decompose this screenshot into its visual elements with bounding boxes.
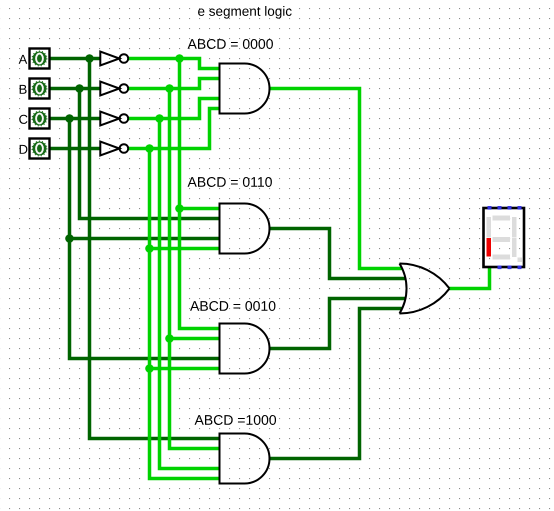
segment c (bottom-right) off bbox=[512, 238, 517, 257]
wire B pin to inverter bbox=[50, 87, 100, 91]
input pin C bbox=[30, 109, 50, 129]
wire D pin to inverter bbox=[50, 147, 100, 151]
wire inverted A tap to AND2 input 1 bbox=[180, 207, 220, 211]
AND gate U4 (ABCD=1000) bbox=[220, 434, 270, 484]
wire AND4 output to OR input 4 (dark) bbox=[270, 309, 403, 459]
junction inverted B vertical y338 bbox=[165, 334, 174, 343]
wire inverted A vertical to AND3 input 1 bbox=[180, 59, 220, 329]
junction inverted C row x159 bbox=[155, 114, 164, 123]
unconnected pin stubs (blue) bottom bbox=[498, 266, 502, 270]
display border bbox=[484, 208, 525, 267]
OR gate U5 bbox=[400, 264, 450, 314]
wire C branch down to AND3 input 3 bbox=[70, 119, 220, 359]
pin label B bbox=[20, 85, 27, 94]
junction A row x89 bbox=[85, 54, 94, 63]
wire inverted D vertical to AND4 input 4 bbox=[150, 149, 220, 479]
decimal point off bbox=[518, 258, 523, 263]
wire C pin to inverter bbox=[50, 117, 100, 121]
segment a (top) off bbox=[493, 216, 511, 221]
segment e (bottom-left) ON red bbox=[487, 238, 492, 257]
input pin D bbox=[30, 139, 50, 159]
label gate U1 "ABCD = 0000" bbox=[188, 39, 273, 49]
AND gate U2 (ABCD=0110) bbox=[220, 204, 270, 254]
wire AND2 output to OR input 2 (dark) bbox=[270, 229, 406, 279]
wire inverted D tap to AND3 input 4 bbox=[150, 367, 220, 371]
pin label D bbox=[20, 145, 28, 154]
wire inverted B vertical to AND4 input 2 bbox=[170, 89, 220, 449]
wire AND1 output to OR input 1 (bright) bbox=[270, 89, 403, 269]
junction inverted D vertical y248 bbox=[145, 244, 154, 253]
inverter (NOT gate) on C bbox=[100, 112, 128, 126]
inverter (NOT gate) on A bbox=[100, 52, 128, 66]
wire inverted B row to AND1 input 2 bbox=[128, 79, 220, 89]
AND gate U1 (ABCD=0000) bbox=[220, 64, 270, 114]
7-segment display U6 bbox=[484, 206, 525, 269]
label gate U3 "ABCD = 0010" bbox=[190, 301, 275, 311]
junction inverted A vertical y208 bbox=[175, 204, 184, 213]
input pin A bbox=[30, 49, 50, 69]
junction inverted D row x149 bbox=[145, 144, 154, 153]
wire OR output to display (bright) bbox=[450, 267, 490, 289]
segment d (bottom) off bbox=[493, 255, 511, 260]
inverter (NOT gate) on D bbox=[100, 142, 128, 156]
title: circuit name text bbox=[198, 6, 292, 19]
wire inverted C row to AND1 input 3 bbox=[128, 99, 220, 119]
pin label A bbox=[19, 55, 28, 64]
junction inverted A row x179 bbox=[175, 54, 184, 63]
AND gate U3 (ABCD=0010) bbox=[220, 324, 270, 374]
inverter (NOT gate) on B bbox=[100, 82, 128, 96]
junction C row x69 bbox=[65, 114, 74, 123]
wire inverted D row to AND1 input 4 bbox=[128, 109, 220, 149]
wire AND3 output to OR input 3 (dark) bbox=[270, 299, 406, 349]
wire B branch down to AND2 input 2 bbox=[80, 89, 220, 219]
label gate U2 "ABCD = 0110" bbox=[188, 177, 272, 187]
wire C tap to AND2 input 3 bbox=[70, 237, 220, 241]
wire A branch down to AND4 input 1 bbox=[90, 59, 220, 439]
label gate U4 "ABCD =1000" bbox=[195, 415, 277, 425]
input pin B bbox=[30, 79, 50, 99]
segment f (top-left) off bbox=[487, 217, 492, 238]
pin label C bbox=[19, 115, 27, 124]
junction C vertical at y238 bbox=[65, 234, 74, 243]
wire inverted A row to AND1 input 1 (bright, value 1) bbox=[128, 59, 220, 69]
junction inverted B row x169 bbox=[165, 84, 174, 93]
segment g (middle) off bbox=[493, 237, 511, 242]
segment b (top-right) off bbox=[512, 217, 517, 238]
junction inverted D vertical y368 bbox=[145, 364, 154, 373]
wire inverted C vertical to AND4 input 3 bbox=[160, 119, 220, 469]
wire inverted D tap to AND2 input 4 bbox=[150, 247, 220, 251]
wire inverted B tap to AND3 input 2 bbox=[170, 337, 220, 341]
junction B row x79 bbox=[75, 84, 84, 93]
unconnected pin stubs (blue) top bbox=[488, 206, 492, 210]
wire A pin to inverter (dark, value 0) bbox=[50, 57, 100, 61]
